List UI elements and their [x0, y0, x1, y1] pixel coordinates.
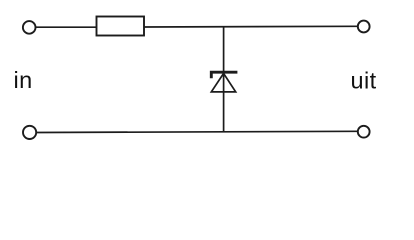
terminal top-right [358, 21, 370, 33]
terminal top-left [23, 21, 36, 34]
zener diode D1 cathode bar [211, 72, 237, 78]
wire bottom segment [37, 131, 358, 132]
wire top-right segment [144, 25, 358, 28]
resistor R1 [97, 17, 145, 36]
svg-text:in: in [14, 67, 33, 93]
terminal bottom-right [358, 126, 370, 138]
svg-text:uit: uit [351, 68, 377, 94]
zener diode D1 triangle [211, 73, 235, 92]
wire vertical branch [223, 27, 225, 132]
wire top-left segment [36, 26, 97, 28]
terminal bottom-left [23, 126, 36, 139]
